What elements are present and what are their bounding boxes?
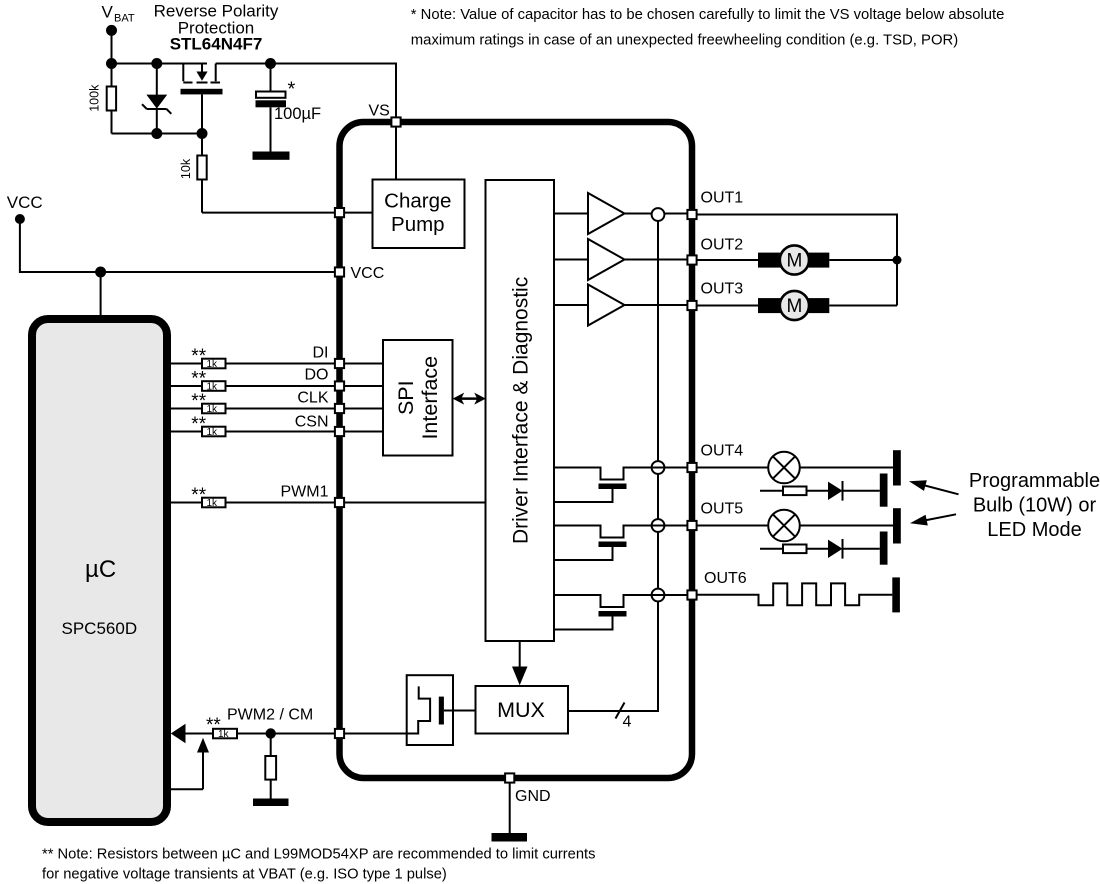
svg-text:OUT3: OUT3: [701, 281, 744, 298]
svg-text:VCC: VCC: [351, 265, 385, 282]
svg-text:*: *: [288, 79, 296, 101]
svg-text:CLK: CLK: [297, 390, 328, 407]
svg-text:DI: DI: [313, 344, 329, 361]
svg-text:STL64N4F7: STL64N4F7: [170, 35, 263, 54]
svg-text:Bulb (10W) or: Bulb (10W) or: [973, 494, 1097, 516]
svg-text:1k: 1k: [218, 729, 230, 740]
svg-text:OUT1: OUT1: [701, 190, 744, 207]
svg-text:1k: 1k: [207, 382, 219, 393]
svg-text:Driver Interface & Diagnostic: Driver Interface & Diagnostic: [510, 277, 533, 544]
svg-text:**: **: [191, 391, 206, 412]
svg-text:VS: VS: [369, 103, 390, 120]
svg-text:SPI: SPI: [394, 380, 418, 415]
svg-text:M: M: [786, 251, 802, 272]
svg-text:OUT5: OUT5: [701, 501, 744, 518]
svg-text:* Note: Value of capacitor has: * Note: Value of capacitor has to be cho…: [411, 6, 1005, 23]
svg-text:100µF: 100µF: [274, 105, 321, 123]
svg-text:1k: 1k: [207, 359, 219, 370]
svg-text:LED Mode: LED Mode: [987, 519, 1082, 541]
svg-text:Programmable: Programmable: [969, 470, 1100, 492]
svg-text:10k: 10k: [179, 158, 193, 179]
svg-text:for negative voltage transient: for negative voltage transients at VBAT …: [42, 865, 447, 882]
svg-text:**: **: [191, 369, 206, 390]
svg-text:1k: 1k: [207, 404, 219, 415]
svg-text:M: M: [786, 296, 802, 317]
svg-text:GND: GND: [515, 788, 551, 805]
svg-text:OUT2: OUT2: [701, 237, 744, 254]
svg-text:**: **: [191, 485, 206, 506]
svg-text:V: V: [102, 3, 114, 22]
svg-text:MUX: MUX: [497, 698, 545, 722]
svg-text:Interface: Interface: [418, 356, 442, 440]
svg-text:PWM2 / CM: PWM2 / CM: [227, 707, 313, 724]
svg-text:OUT6: OUT6: [704, 570, 747, 587]
svg-text:SPC560D: SPC560D: [62, 619, 138, 638]
svg-text:OUT4: OUT4: [701, 443, 744, 460]
svg-text:maximum ratings in case of an: maximum ratings in case of an unexpected…: [411, 31, 958, 48]
svg-text:1k: 1k: [207, 427, 219, 438]
svg-text:**: **: [191, 414, 206, 435]
svg-text:CSN: CSN: [295, 413, 329, 430]
svg-text:100k: 100k: [88, 84, 102, 112]
svg-text:Pump: Pump: [391, 213, 445, 236]
svg-text:µC: µC: [85, 556, 116, 583]
svg-text:Charge: Charge: [384, 189, 451, 212]
svg-text:1k: 1k: [207, 498, 219, 509]
svg-text:**: **: [191, 346, 206, 367]
svg-text:BAT: BAT: [114, 13, 135, 25]
svg-text:4: 4: [623, 714, 632, 731]
svg-text:** Note: Resistors between µC: ** Note: Resistors between µC and L99MOD…: [42, 846, 596, 863]
svg-text:DO: DO: [305, 366, 329, 383]
svg-text:PWM1: PWM1: [281, 484, 329, 501]
svg-text:VCC: VCC: [7, 193, 43, 212]
